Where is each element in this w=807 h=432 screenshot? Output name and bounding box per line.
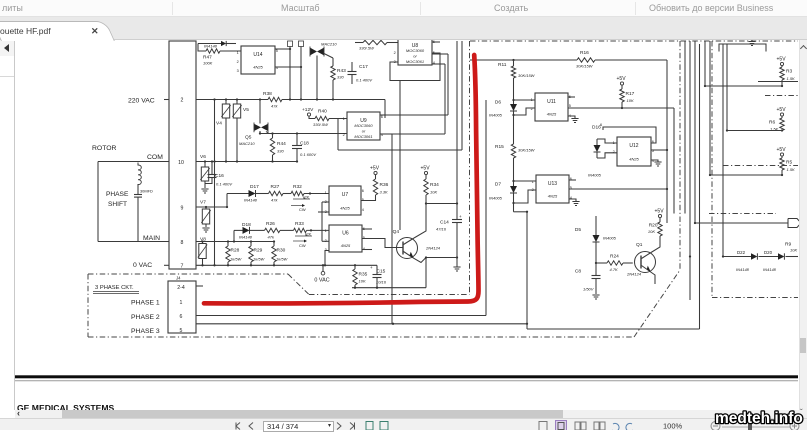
svg-text:PHASE 1: PHASE 1 [131, 300, 160, 307]
svg-text:MOC3060: MOC3060 [406, 48, 425, 53]
svg-text:3: 3 [237, 69, 239, 73]
svg-text:MOC3061: MOC3061 [354, 134, 372, 139]
svg-text:C18: C18 [300, 141, 309, 147]
diode D20 [763, 250, 784, 272]
resistor R26 [265, 221, 294, 240]
pin 7 label [181, 264, 184, 270]
wire R6 row [726, 129, 782, 131]
svg-text:4: 4 [362, 208, 364, 212]
svg-text:R28: R28 [231, 248, 240, 254]
svg-text:PHASE 2: PHASE 2 [131, 314, 160, 321]
bus vertical 2 [689, 41, 691, 300]
svg-text:R33: R33 [295, 221, 304, 227]
svg-text:D18: D18 [242, 222, 251, 228]
svg-text:+5V: +5V [655, 209, 665, 215]
svg-text:10K: 10K [627, 98, 634, 103]
svg-text:J4: J4 [176, 276, 181, 281]
svg-text:8: 8 [181, 240, 184, 246]
svg-text:R36: R36 [380, 182, 389, 188]
capacitor C8 [575, 263, 601, 294]
svg-text:R16: R16 [580, 50, 589, 56]
wire vertical bus B [461, 41, 463, 150]
resistor R27 [269, 184, 292, 203]
svg-text:+12V: +12V [302, 107, 314, 113]
svg-text:1: 1 [237, 51, 239, 55]
svg-text:+5V: +5V [617, 76, 627, 82]
svg-text:4N25: 4N25 [629, 156, 639, 161]
svg-text:47k: 47k [268, 235, 275, 240]
resistor R24 [596, 254, 633, 273]
wire vertical x486 [485, 100, 487, 316]
svg-text:R34: R34 [430, 182, 439, 188]
svg-text:C8: C8 [575, 269, 581, 275]
svg-text:1k/5W: 1k/5W [230, 257, 243, 262]
pin 9 label [181, 206, 184, 212]
svg-text:PHASE: PHASE [106, 191, 129, 198]
wire to off-page connector [694, 222, 788, 224]
wire J4 pin5 row [196, 323, 528, 325]
svg-text:2K: 2K [306, 233, 312, 237]
svg-text:1/50V: 1/50V [583, 287, 594, 292]
svg-text:100%: 100% [663, 422, 683, 431]
U7 pin wires [318, 202, 329, 241]
Q4 collector wire [414, 204, 426, 239]
capacitor C15 [370, 265, 387, 288]
varistor V5 [232, 100, 249, 162]
left sidebar [0, 40, 15, 410]
svg-text:10K: 10K [430, 190, 437, 195]
svg-text:4N25: 4N25 [548, 194, 558, 199]
svg-text:R17: R17 [626, 91, 635, 97]
wire top rail right [470, 59, 577, 61]
+5V resistor R34 [421, 166, 440, 205]
svg-text:6: 6 [381, 115, 383, 119]
diode D5 [575, 216, 617, 264]
svg-text:U6: U6 [342, 230, 349, 236]
svg-text:2N4124: 2N4124 [626, 272, 642, 277]
svg-text:10/16: 10/16 [376, 280, 387, 285]
svg-text:V7: V7 [200, 200, 206, 206]
svg-text:30K/15W: 30K/15W [576, 64, 594, 69]
svg-text:2: 2 [394, 51, 396, 55]
svg-text:IN4148: IN4148 [763, 267, 777, 272]
svg-text:U7: U7 [342, 192, 349, 198]
svg-text:10K: 10K [790, 248, 797, 253]
capacitor C18 [292, 134, 316, 162]
varistor V8 [198, 237, 207, 266]
varistor V7 [200, 200, 211, 228]
U6 pin wires [322, 229, 372, 265]
fuse F2 top cut [299, 41, 304, 100]
ground C14 [453, 258, 460, 272]
svg-text:2: 2 [613, 150, 615, 154]
svg-text:1: 1 [325, 229, 327, 233]
wire R5 row [709, 174, 782, 176]
svg-text:MAC210: MAC210 [321, 42, 337, 47]
diode D19 IN4148 top [198, 41, 236, 51]
label COM [147, 154, 163, 161]
svg-text:220 VAC: 220 VAC [128, 98, 155, 105]
bus vertical 7 [726, 44, 728, 131]
label MAIN [143, 235, 160, 242]
svg-text:2K: 2K [304, 196, 310, 200]
svg-text:47k: 47k [271, 198, 278, 203]
wire U6 to Q4 base [362, 239, 403, 248]
label 220 VAC [128, 98, 169, 105]
opto U13 [532, 175, 572, 203]
svg-text:30K/15W: 30K/15W [518, 73, 536, 78]
svg-text:C16: C16 [215, 173, 224, 179]
ground U13 [572, 202, 579, 206]
bus vertical 3 [694, 41, 696, 223]
svg-text:MOC3061: MOC3061 [406, 59, 424, 64]
svg-text:R20: R20 [649, 223, 658, 229]
svg-text:5: 5 [276, 49, 278, 53]
svg-text:6: 6 [600, 123, 602, 127]
svg-text:R43: R43 [337, 68, 346, 74]
node 0 VAC [314, 265, 329, 283]
wire J4 pin2-4 stub [196, 285, 203, 287]
capacitor C17 [348, 62, 373, 84]
svg-text:1k/5W: 1k/5W [253, 257, 266, 262]
fuse F1 top cut [288, 41, 293, 100]
label PHASE 3 [131, 328, 160, 335]
U11 pin wires [514, 97, 675, 118]
svg-text:0 VAC: 0 VAC [133, 262, 152, 269]
svg-text:U14: U14 [253, 52, 262, 58]
svg-text:6: 6 [180, 314, 183, 320]
svg-text:4N25: 4N25 [547, 112, 557, 117]
svg-text:4N25: 4N25 [253, 65, 263, 70]
svg-text:or: or [413, 54, 417, 59]
svg-text:100K: 100K [203, 61, 213, 66]
resistor R16 [576, 50, 667, 69]
svg-text:Q1: Q1 [636, 242, 643, 248]
medteh.info watermark [712, 405, 807, 430]
pin 10 label [178, 160, 184, 166]
transistor Q4 [393, 229, 441, 259]
svg-text:IN4005: IN4005 [489, 113, 503, 118]
svg-text:COM: COM [147, 154, 163, 161]
U8 to U9 wire loops [385, 54, 448, 134]
svg-text:U13: U13 [548, 181, 557, 187]
potentiometer R32 [291, 184, 329, 212]
tab bar [0, 17, 807, 40]
svg-text:R11: R11 [498, 62, 507, 68]
U8 lower wire loop [390, 42, 440, 81]
varistor V4 [216, 100, 231, 162]
wire 0VAC rail [196, 264, 377, 266]
svg-text:R40: R40 [318, 109, 327, 115]
wire loop top right [719, 44, 766, 52]
ground U11 [571, 119, 578, 123]
svg-text:+5V: +5V [777, 107, 787, 113]
svg-text:D6: D6 [495, 100, 501, 106]
Q1 collector wire [651, 236, 660, 253]
svg-text:C14: C14 [440, 220, 449, 226]
wire D22 D20 row [722, 255, 798, 257]
svg-text:+5V: +5V [777, 147, 787, 153]
wire vertical x527 [526, 212, 528, 329]
svg-text:10K: 10K [648, 229, 655, 234]
resistor R44 [270, 134, 286, 162]
+5V resistor R6 [769, 107, 786, 132]
svg-text:30MFD: 30MFD [140, 189, 153, 194]
ground V7 [202, 228, 209, 232]
svg-text:1: 1 [343, 117, 345, 121]
svg-text:MAC210: MAC210 [239, 141, 255, 146]
svg-text:V5: V5 [243, 107, 249, 113]
ground V6 [201, 189, 208, 193]
wire vertical x674 [673, 108, 675, 214]
svg-text:1k/5W: 1k/5W [276, 257, 289, 262]
resistor R29 [249, 242, 266, 266]
svg-text:4.7K: 4.7K [610, 267, 619, 272]
svg-text:IN4005: IN4005 [489, 196, 503, 201]
svg-text:+: + [370, 265, 373, 270]
transistor Q1 [626, 242, 656, 277]
svg-text:SHIFT: SHIFT [108, 201, 127, 208]
svg-text:R5: R5 [786, 160, 792, 166]
wire vertical bus D [399, 81, 401, 230]
wire Q5 gate row [259, 132, 347, 134]
svg-text:R30: R30 [277, 248, 286, 254]
bus vertical 4 [704, 41, 706, 86]
diode D17 [244, 184, 269, 203]
resistor R35 [353, 265, 368, 287]
menu bar [0, 0, 807, 17]
wire R34 to C14 [426, 202, 458, 204]
wire long vertical mid [214, 100, 216, 266]
opto U6 [325, 225, 365, 252]
bus vertical 5 [709, 41, 711, 175]
pin 2 label [181, 98, 184, 104]
connector J4 [168, 276, 196, 335]
svg-text:0.1 600V: 0.1 600V [300, 152, 316, 157]
wire pin8 MAIN rail [196, 240, 275, 242]
svg-text:330/.5W: 330/.5W [359, 46, 375, 51]
svg-text:0 VAC: 0 VAC [314, 278, 329, 284]
svg-text:IN4005: IN4005 [603, 236, 617, 241]
svg-text:9: 9 [181, 206, 184, 212]
varistor V6 [200, 154, 210, 188]
wire emitter return row [352, 256, 427, 289]
resistor R9 [785, 242, 797, 253]
red highlighter annotation wire [204, 55, 479, 303]
svg-text:+5V: +5V [421, 166, 431, 172]
svg-text:V6: V6 [200, 154, 206, 160]
svg-text:D20: D20 [764, 250, 773, 255]
svg-text:D7: D7 [495, 182, 501, 188]
svg-text:CW: CW [299, 243, 306, 248]
label 3 PHASE CKT [93, 285, 139, 294]
separator line right [758, 81, 798, 83]
svg-text:IN4005: IN4005 [588, 173, 602, 178]
wire COM rail [196, 160, 298, 162]
svg-text:PHASE 3: PHASE 3 [131, 328, 160, 335]
svg-text:GE MEDICAL SYSTEMS: GE MEDICAL SYSTEMS [17, 403, 115, 410]
+5V resistor R17 [617, 76, 635, 108]
opto U11 [531, 93, 571, 121]
svg-text:R15: R15 [495, 144, 504, 150]
vertical scrollbar [799, 40, 807, 410]
svg-text:7: 7 [181, 264, 184, 270]
svg-text:1.5K: 1.5K [787, 76, 796, 81]
svg-text:R44: R44 [277, 141, 286, 147]
opto U9 [343, 112, 383, 140]
svg-text:R27: R27 [271, 184, 280, 190]
resistor R43 [331, 58, 346, 100]
wire J4 pin6 row [196, 315, 486, 317]
svg-text:R6: R6 [769, 120, 775, 126]
label PHASE 1 [131, 300, 160, 307]
U13 pin wires [514, 180, 668, 203]
svg-text:3.3K: 3.3K [380, 190, 389, 195]
capacitor C16 [205, 162, 232, 187]
opto U14 [237, 46, 278, 74]
svg-text:+: + [459, 214, 462, 219]
svg-text:C15: C15 [377, 269, 386, 275]
svg-text:D22: D22 [737, 250, 746, 255]
ground U12 [654, 162, 661, 166]
svg-text:IN4148: IN4148 [204, 44, 218, 49]
svg-text:3 PHASE CKT.: 3 PHASE CKT. [95, 285, 134, 291]
opto U8 [394, 37, 435, 65]
svg-text:+5V: +5V [370, 166, 380, 172]
diode D16 [588, 125, 617, 178]
bus vertical 1 [684, 41, 686, 214]
wire pin9 rail [196, 206, 228, 208]
label PHASE 2 [131, 314, 160, 321]
svg-text:6: 6 [362, 189, 364, 193]
svg-text:CW: CW [299, 207, 306, 212]
label ROTOR [92, 145, 117, 152]
+5V resistor R5 [777, 147, 796, 176]
triac Q3 top [310, 42, 337, 100]
svg-text:U11: U11 [547, 99, 556, 105]
svg-text:2: 2 [181, 98, 184, 104]
opto U7 [325, 186, 364, 215]
svg-text:10K: 10K [359, 279, 366, 284]
Q4 emitter wire [413, 258, 457, 263]
capacitor C14 [436, 204, 462, 259]
svg-text:medteh.info: medteh.info [715, 410, 803, 427]
svg-text:IN4148: IN4148 [736, 267, 750, 272]
svg-text:1.5K: 1.5K [787, 167, 796, 172]
wire pin9 to D17 [227, 194, 249, 208]
resistor R47 [203, 49, 241, 66]
svg-text:MAIN: MAIN [143, 235, 160, 242]
svg-text:330/.5W: 330/.5W [313, 122, 329, 127]
wire pin8 to D18 [234, 230, 243, 241]
rotor phase-shift network box [98, 162, 169, 242]
dashed border right section [709, 41, 798, 298]
svg-text:0.1 400V: 0.1 400V [216, 182, 232, 187]
U12 pin wires [600, 123, 668, 162]
svg-text:330: 330 [337, 75, 344, 80]
Q1 emitter wire [650, 272, 655, 285]
ground C8 [592, 295, 599, 299]
diode D7 [489, 180, 528, 213]
connector P1 (interface strip) [169, 41, 196, 269]
svg-text:IN4148: IN4148 [244, 198, 258, 203]
ground top right [748, 38, 755, 46]
svg-text:R35: R35 [359, 272, 368, 278]
wire vertical x393 [391, 134, 393, 324]
svg-text:R24: R24 [610, 254, 619, 260]
diode D18 [239, 222, 265, 240]
bus vertical 6 [722, 44, 724, 257]
svg-text:U12: U12 [629, 143, 638, 149]
pin 8 label [181, 240, 184, 246]
resistor R11 [498, 60, 536, 104]
svg-text:1: 1 [180, 300, 183, 306]
svg-text:30K/15W: 30K/15W [518, 148, 536, 153]
svg-text:2: 2 [343, 133, 345, 137]
svg-text:2N4124: 2N4124 [425, 246, 441, 251]
svg-text:R3: R3 [786, 69, 792, 75]
triac Q5 [239, 100, 269, 146]
svg-text:R38: R38 [263, 91, 272, 97]
svg-text:IN4148: IN4148 [239, 235, 253, 240]
dashed border 3 phase circuit box [88, 274, 634, 337]
opto U12 [613, 137, 654, 166]
inductor L1 phase shift coil [138, 163, 141, 187]
svg-text:4N25: 4N25 [340, 205, 350, 210]
svg-text:D17: D17 [250, 184, 259, 190]
svg-text:1: 1 [325, 191, 327, 195]
wire 220VAC rail [196, 98, 385, 100]
svg-text:47/16: 47/16 [436, 227, 447, 232]
svg-text:4N25: 4N25 [341, 243, 351, 248]
svg-text:V4: V4 [216, 121, 222, 127]
potentiometer R33 [293, 221, 329, 248]
svg-text:330: 330 [277, 149, 284, 154]
U14 right wires [275, 48, 302, 68]
+12V node and resistor R40 [302, 107, 347, 127]
svg-text:+5V: +5V [777, 57, 787, 63]
svg-text:or: or [362, 129, 366, 134]
diode D22 [736, 250, 757, 272]
svg-text:Q5: Q5 [245, 135, 252, 141]
svg-text:47k: 47k [271, 104, 278, 109]
+5V resistor R20 [648, 209, 664, 237]
svg-text:0.1 400V: 0.1 400V [356, 78, 372, 83]
+5V resistor R3 [777, 57, 796, 88]
wire vertical bus A [456, 41, 458, 204]
label GE MEDICAL SYSTEMS [17, 403, 115, 413]
diode D6 [489, 99, 517, 144]
resistor R15 [495, 144, 536, 186]
wire R3 row [704, 85, 782, 87]
dashed border main section [309, 41, 798, 337]
svg-text:D5: D5 [575, 227, 581, 233]
svg-text:ROTOR: ROTOR [92, 145, 117, 152]
svg-text:R32: R32 [293, 184, 302, 190]
wire lower route right [527, 328, 700, 330]
resistor R41 330/.5W [355, 40, 398, 50]
svg-text:1: 1 [613, 141, 615, 145]
label 0 VAC [133, 262, 169, 269]
svg-text:2-4: 2-4 [177, 285, 185, 291]
svg-text:R26: R26 [266, 221, 275, 227]
svg-text:5: 5 [569, 104, 571, 108]
resistor R30 [272, 242, 289, 266]
svg-text:5: 5 [180, 328, 183, 334]
svg-text:MOC3060: MOC3060 [354, 123, 373, 128]
status bar [0, 418, 807, 430]
off-page connector U15 [788, 219, 801, 228]
